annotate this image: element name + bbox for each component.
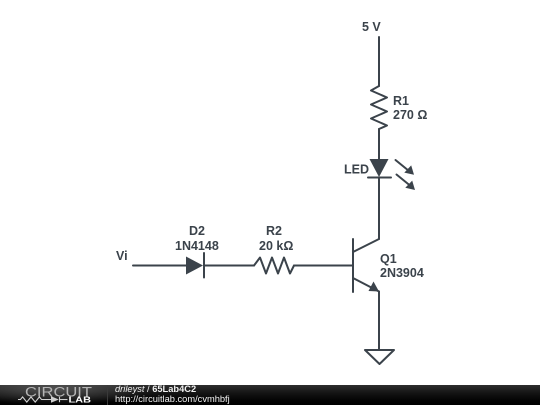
svg-text:R2: R2 (266, 224, 282, 238)
svg-text:5 V: 5 V (362, 20, 381, 34)
svg-text:20 kΩ: 20 kΩ (259, 239, 293, 253)
svg-text:D2: D2 (189, 224, 205, 238)
svg-text:2N3904: 2N3904 (380, 266, 424, 280)
svg-text:R1: R1 (393, 94, 409, 108)
svg-text:Vi: Vi (116, 249, 128, 263)
svg-text:1N4148: 1N4148 (175, 239, 219, 253)
svg-text:LED: LED (344, 163, 369, 177)
svg-text:270 Ω: 270 Ω (393, 108, 427, 122)
svg-text:LAB: LAB (69, 394, 92, 404)
svg-text:Q1: Q1 (380, 252, 397, 266)
